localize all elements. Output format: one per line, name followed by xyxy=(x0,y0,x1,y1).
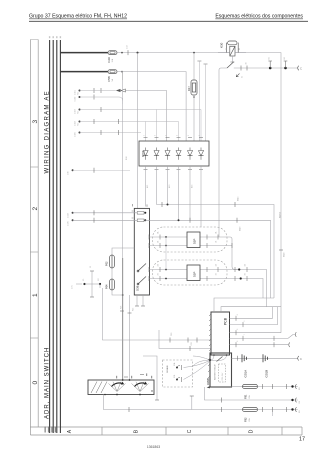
relay 53P box 2 xyxy=(187,265,200,281)
module 1 ticks and nodes xyxy=(149,235,218,249)
S38 pin labels xyxy=(132,204,148,218)
svg-text:4: 4 xyxy=(177,135,179,136)
wire: cluster to PCB row 1 xyxy=(99,284,101,288)
wire: drops to V02 pins xyxy=(156,110,158,142)
svg-text:0: 0 xyxy=(32,381,39,385)
power bus rail 1 xyxy=(49,40,51,433)
wire: F64 down to heavy feed xyxy=(112,290,123,295)
PCB bottom fan to A39B node xyxy=(184,355,227,380)
A39B coil (dashed) xyxy=(219,364,226,382)
A39B contact xyxy=(217,357,223,362)
svg-text:Grupo 37 Esquema elétrico FM,: Grupo 37 Esquema elétrico FM, FH, NH12 xyxy=(29,14,127,20)
PCB left pin ticks xyxy=(209,314,211,351)
PCB right pin wires to rails xyxy=(230,307,273,319)
battery unit bottom pins xyxy=(116,394,118,396)
svg-text:C61: C61 xyxy=(191,342,193,345)
svg-text:AE5: AE5 xyxy=(191,185,194,188)
svg-text:C13: C13 xyxy=(127,44,129,49)
svg-text:C105: C105 xyxy=(75,131,77,137)
second feed down xyxy=(129,295,131,380)
wire: tap row G2 y220.3 xyxy=(72,219,74,221)
svg-text:C71: C71 xyxy=(72,284,74,289)
svg-text:AE1: AE1 xyxy=(146,185,149,188)
svg-text:2B: 2B xyxy=(158,240,160,243)
svg-text:F29: F29 xyxy=(107,57,111,63)
wires: V02 bottom pins down xyxy=(146,166,202,227)
ground G01B xyxy=(263,354,267,362)
svg-text:53P: 53P xyxy=(193,272,197,277)
junction dot after F58 xyxy=(121,71,123,73)
svg-text:R17: R17 xyxy=(187,86,191,91)
diode pack V02 xyxy=(139,141,209,166)
wire: battery to F82 row xyxy=(104,395,243,410)
fuse F62 (vertical) xyxy=(112,248,134,255)
wire: S38 row2 to right rail xyxy=(145,220,270,298)
wire: arrow row to V02 pin 3 xyxy=(126,91,167,142)
svg-text:5: 5 xyxy=(188,135,190,136)
main switch S38 box xyxy=(134,208,149,295)
svg-text:10A: 10A xyxy=(248,418,251,422)
svg-text:1B: 1B xyxy=(216,240,218,243)
connector C end bracket xyxy=(298,66,299,71)
svg-text:A39B: A39B xyxy=(206,378,210,385)
svg-text:C: C xyxy=(300,357,302,361)
svg-text:SA: SA xyxy=(76,111,79,114)
wire: S38 row1 to right rail xyxy=(157,205,275,299)
wire: F29 output to right rail xyxy=(117,53,281,68)
relay module group 1 (dashed) xyxy=(153,227,228,252)
svg-text:C135: C135 xyxy=(68,220,70,226)
svg-text:EB: EB xyxy=(299,410,301,413)
svg-text:C103: C103 xyxy=(75,108,77,114)
svg-text:1361863: 1361863 xyxy=(147,445,160,449)
svg-text:86: 86 xyxy=(226,48,228,50)
svg-text:BA300: BA300 xyxy=(279,211,282,218)
A39B left edge pin ticks xyxy=(208,358,210,378)
bus tap row D y121.5 xyxy=(79,121,81,123)
fuse F82 xyxy=(243,407,258,411)
wire: drops to V02 pins xyxy=(145,122,147,142)
frame left border xyxy=(29,40,31,436)
svg-text:C30: C30 xyxy=(68,170,70,175)
V02 pin ticks bottom xyxy=(144,169,204,171)
bus tap row F y170.3 xyxy=(72,169,74,171)
battery unit top labels xyxy=(116,373,152,378)
svg-text:S38: S38 xyxy=(136,285,140,291)
wire: PCB row 2 xyxy=(159,330,211,349)
svg-text:COIL 24V: COIL 24V xyxy=(222,372,224,381)
wire: F29 drop to resistor R17 xyxy=(193,52,195,54)
svg-text:30: 30 xyxy=(90,266,92,268)
svg-text:2: 2 xyxy=(155,135,157,136)
S61A dashed box xyxy=(163,360,193,387)
fuse F29 xyxy=(108,51,117,55)
K30 pin wires xyxy=(218,52,230,54)
relay 53P box 1 xyxy=(187,232,200,248)
svg-text:EB: EB xyxy=(299,387,301,390)
junction dot after F29 xyxy=(121,52,123,54)
svg-text:PCB: PCB xyxy=(224,317,228,325)
svg-text:Esquemas elétricos dos compone: Esquemas elétricos dos componentes xyxy=(215,14,303,20)
S38 bottom pin stubs xyxy=(136,295,138,306)
power bus rail 3 xyxy=(56,40,58,433)
svg-text:G01A: G01A xyxy=(244,370,248,378)
connector tick on F29 wire xyxy=(127,50,129,55)
S38 top pin boxes xyxy=(137,212,144,215)
svg-text:5: 5 xyxy=(244,321,246,322)
svg-text:R16: R16 xyxy=(126,155,128,160)
wire: drop x199.4 xyxy=(197,60,201,62)
corner: F58 branch down (heavy feed) xyxy=(121,72,124,80)
bus tap row C y109.5 xyxy=(79,109,81,111)
ground ref 31 arrow xyxy=(236,74,239,77)
svg-text:2A: 2A xyxy=(157,231,160,234)
svg-text:7: 7 xyxy=(244,334,246,335)
svg-text:C101: C101 xyxy=(75,89,77,95)
bus tap row E y132.5 xyxy=(79,132,81,134)
PCB top pin wires xyxy=(214,298,274,312)
ground G01A xyxy=(242,354,246,362)
heavy feed down to battery unit xyxy=(122,80,124,258)
battery unit top pin ticks xyxy=(124,376,128,378)
svg-text:F81: F81 xyxy=(244,394,248,399)
svg-text:R16: R16 xyxy=(121,306,123,309)
wire: R17 to diode pack xyxy=(193,95,195,141)
wire: tap row G to S38 y212.8 xyxy=(72,212,74,214)
svg-text:3B: 3B xyxy=(245,273,247,276)
svg-text:BATTERY RELAY: BATTERY RELAY xyxy=(214,363,217,380)
header rule xyxy=(29,20,308,22)
svg-text:6: 6 xyxy=(237,329,239,330)
battery unit hatch xyxy=(91,382,107,394)
fuse F81 xyxy=(243,384,258,388)
svg-text:B2: B2 xyxy=(284,57,286,59)
svg-text:C104: C104 xyxy=(75,120,77,126)
svg-text:31: 31 xyxy=(242,76,244,78)
module 2 ticks and nodes xyxy=(149,267,247,281)
svg-text:1A: 1A xyxy=(215,231,218,234)
svg-text:C: C xyxy=(300,66,302,70)
relay module group 2 (dashed) xyxy=(153,260,228,285)
svg-text:2A: 2A xyxy=(157,264,160,267)
svg-text:1A: 1A xyxy=(215,264,218,267)
battery unit switch fans xyxy=(109,382,149,392)
module 2 wires xyxy=(150,269,188,271)
V02 diodes xyxy=(143,148,204,160)
wire: F58 output corner down to V02 xyxy=(117,72,186,141)
svg-text:3: 3 xyxy=(166,135,168,136)
svg-text:AE3: AE3 xyxy=(168,185,171,188)
svg-text:SA: SA xyxy=(76,123,79,126)
svg-text:B: B xyxy=(134,429,140,433)
bus tap row A y90.5 xyxy=(79,90,81,92)
wire: drop from y68 at x219 down xyxy=(218,78,220,237)
svg-text:B1: B1 xyxy=(269,57,271,59)
svg-text:4: 4 xyxy=(237,314,239,315)
connector cluster X1 xyxy=(76,283,82,285)
junction node xyxy=(269,67,272,70)
svg-text:F58: F58 xyxy=(107,76,111,82)
wire: row y68 left with corner down xyxy=(219,68,227,78)
svg-text:10A: 10A xyxy=(111,58,114,62)
svg-text:SA: SA xyxy=(76,92,79,95)
K30 contact xyxy=(227,62,234,68)
relay K30 xyxy=(226,41,238,56)
resistor R17 xyxy=(191,80,197,95)
R17 bottom node xyxy=(193,96,195,98)
svg-text:10A: 10A xyxy=(248,395,251,399)
V02 pin labels top xyxy=(144,135,202,136)
fuse F64 (vertical) xyxy=(110,279,115,290)
svg-text:1: 1 xyxy=(32,293,39,297)
svg-text:61B: 61B xyxy=(174,374,176,378)
A39B bottom pin row xyxy=(205,387,298,400)
bus bottom labels xyxy=(45,427,57,433)
battery disconnect unit box xyxy=(88,380,154,395)
wire left of S61A xyxy=(143,356,157,400)
PCB box xyxy=(211,312,230,355)
svg-text:EB: EB xyxy=(299,400,301,403)
svg-text:F62: F62 xyxy=(105,261,109,266)
frame label column line xyxy=(37,40,39,428)
wire: drop to switch S38 top xyxy=(137,53,139,209)
svg-text:30: 30 xyxy=(246,63,248,65)
svg-text:1: 1 xyxy=(144,135,146,136)
svg-text:BA30: BA30 xyxy=(283,253,286,257)
svg-text:A: A xyxy=(67,429,73,433)
svg-text:S61A/B: S61A/B xyxy=(166,365,169,373)
svg-text:X1: X1 xyxy=(83,278,85,281)
svg-text:C60: C60 xyxy=(171,333,173,336)
svg-text:C: C xyxy=(187,429,193,433)
svg-text:61A: 61A xyxy=(173,362,176,366)
svg-text:G01B: G01B xyxy=(265,370,269,378)
fuse F58 xyxy=(108,70,117,74)
svg-text:F82: F82 xyxy=(244,417,248,422)
battery relay A39B xyxy=(210,353,232,387)
bottom letters band xyxy=(30,427,302,435)
svg-text:X2: X2 xyxy=(98,278,100,281)
svg-text:D: D xyxy=(249,429,255,433)
svg-text:3: 3 xyxy=(32,120,39,124)
svg-text:F64: F64 xyxy=(105,284,109,289)
svg-text:BA15: BA15 xyxy=(237,197,240,201)
wire: feed row 2 (thick) xyxy=(60,71,108,73)
S61A sensor 2 xyxy=(176,379,178,381)
svg-text:17: 17 xyxy=(299,437,305,443)
svg-text:C134: C134 xyxy=(68,212,70,218)
svg-text:53P: 53P xyxy=(193,239,197,244)
junction node at x137.5 xyxy=(137,52,139,54)
wire between fuses xyxy=(111,268,113,279)
inter-module links xyxy=(165,237,167,270)
S61A sensor 1 xyxy=(176,367,178,369)
A39B right pin wire: ground row xyxy=(232,357,298,359)
right rail from F29 down xyxy=(280,68,282,333)
svg-text:R15: R15 xyxy=(133,308,135,311)
module 1 wires xyxy=(150,236,188,238)
ground row end bracket xyxy=(298,356,299,361)
label column separators xyxy=(30,39,38,41)
V02 pin ticks top xyxy=(144,137,204,139)
svg-text:1B: 1B xyxy=(216,273,218,276)
svg-text:5A: 5A xyxy=(111,78,114,81)
svg-text:6: 6 xyxy=(199,135,201,136)
svg-text:2B: 2B xyxy=(158,273,160,276)
svg-text:85: 85 xyxy=(239,48,241,50)
wire: feed row 1 (thick) xyxy=(60,52,108,54)
power bus rail 4 xyxy=(59,40,61,433)
wire: row y68 to connector C xyxy=(234,67,298,69)
svg-text:3A: 3A xyxy=(244,264,247,267)
power bus rail 2 xyxy=(52,40,54,433)
pin labels below V02 xyxy=(146,185,194,188)
fuse row F81 xyxy=(232,386,243,388)
svg-text:8: 8 xyxy=(237,341,239,342)
wire: drop x205.5 xyxy=(204,63,208,65)
bus top labels xyxy=(49,36,61,38)
S38 contacts xyxy=(137,264,146,285)
junction node xyxy=(284,67,287,70)
svg-text:C102: C102 xyxy=(75,96,77,102)
off-page arrows xyxy=(116,89,121,92)
svg-text:BA16: BA16 xyxy=(239,227,242,231)
svg-text:K30: K30 xyxy=(220,42,224,48)
bus tap row B y97 xyxy=(79,96,81,98)
svg-text:2: 2 xyxy=(32,207,39,211)
